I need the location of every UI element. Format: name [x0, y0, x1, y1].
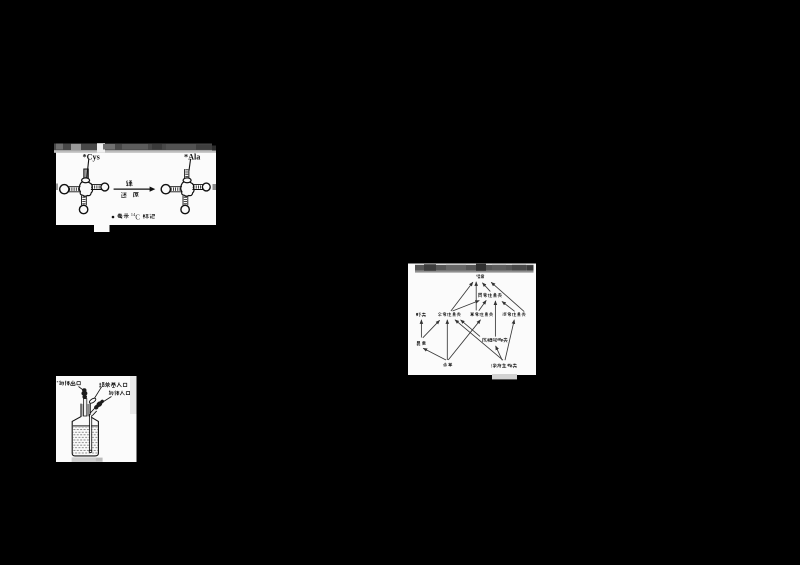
tRNA left acceptor end ellipse: [82, 178, 90, 183]
node 杂食性鱼类: [438, 312, 461, 316]
arrow 水草→草食性鱼类: [448, 320, 480, 360]
arrow 昆虫→虾类: [420, 320, 422, 338]
footnote 标记: [143, 214, 155, 219]
svg-text:*Cys: *Cys: [83, 153, 100, 162]
figure 1 censored caption strip: [54, 143, 216, 153]
gas outlet plug: [81, 388, 87, 399]
label 气体出口: [57, 381, 80, 386]
tRNA right left stem: [170, 187, 182, 192]
arrow 杂食性鱼类→猛禽: [451, 282, 473, 311]
reaction arrow: [114, 187, 156, 192]
label *Ala: [184, 153, 200, 162]
tRNA left left loop: [60, 185, 69, 194]
node 底栖动物类: [482, 338, 507, 342]
arrow 底栖动物类→肉食性鱼类: [494, 301, 496, 337]
label reduction: [121, 192, 138, 197]
medium inlet port: [88, 397, 96, 404]
tRNA right amino-acid line: [189, 159, 191, 171]
tRNA right acceptor end ellipse: [183, 178, 191, 183]
arrow 肉食性鱼类→猛禽: [482, 283, 490, 292]
gas inlet tube through shoulder: [90, 409, 97, 416]
arrow 滤食性鱼类→肉食性鱼类: [502, 301, 515, 311]
tRNA left anticodon stem: [82, 196, 87, 206]
node 滤食性鱼类: [503, 312, 526, 316]
neck shading: [82, 404, 90, 416]
tRNA left anticodon loop: [79, 205, 87, 213]
node 昆虫: [417, 341, 426, 345]
figure 1 right edge tick: [213, 184, 217, 190]
tRNA left right loop: [101, 183, 109, 191]
figure 1 white panel: [56, 153, 216, 233]
tRNA left amino-acid line: [87, 159, 89, 179]
node 浮游生物类: [491, 364, 517, 368]
inner sparger tube: [89, 414, 92, 453]
arrow 浮游生物类→杂食性鱼类: [455, 320, 503, 360]
arrow 浮游生物类→底栖动物类: [496, 346, 503, 360]
tRNA right central body: [181, 182, 194, 196]
gas inlet plug: [93, 399, 105, 411]
tRNA right right stem: [192, 185, 203, 190]
node 水草: [443, 363, 452, 367]
label nickel: [126, 181, 132, 187]
arrow 草食性鱼类→肉食性鱼类: [479, 300, 486, 310]
leader line 培养基入口: [95, 387, 102, 398]
culture liquid: [73, 425, 98, 455]
node 虾类: [416, 313, 426, 317]
bottle body outline: [72, 404, 98, 456]
gas outlet tube: [84, 399, 87, 416]
label 培养基入口: [99, 382, 127, 387]
tRNA left central body: [79, 182, 92, 196]
footnote 表示: [117, 214, 129, 219]
footnote bullet: [112, 216, 115, 219]
tRNA left right stem: [91, 185, 102, 190]
figure 1 left edge tick: [56, 184, 58, 191]
svg-text:C: C: [135, 214, 140, 221]
arrow 底栖动物类→杂食性鱼类: [461, 320, 480, 337]
svg-text:*Ala: *Ala: [184, 153, 200, 162]
tRNA right left loop: [161, 185, 170, 194]
node 肉食性鱼类: [478, 293, 501, 297]
leader line 气体入口: [103, 397, 111, 402]
label 气体入口: [109, 391, 130, 396]
footnote 14C: [131, 212, 141, 221]
arrow 浮游生物类→滤食性鱼类: [505, 320, 514, 360]
node 草食性鱼类: [470, 312, 493, 316]
tRNA right acceptor stem: [185, 169, 189, 179]
figure 3 grey tab under bottle: [72, 457, 103, 462]
figure 2 censored caption strip: [415, 264, 534, 273]
node 猛禽: [476, 274, 484, 278]
tRNA right anticodon loop: [181, 205, 189, 213]
figure 3 white panel: [56, 376, 137, 462]
arrow 杂食性鱼类→肉食性鱼类: [453, 301, 480, 312]
tRNA right right loop: [202, 183, 210, 191]
figure 2 white panel: [408, 264, 536, 376]
leader line 气体出口: [79, 387, 84, 391]
tRNA left left stem: [69, 187, 81, 192]
arrow 草食性鱼类→猛禽: [475, 282, 477, 311]
tRNA right anticodon stem: [183, 196, 188, 206]
label *Cys: [83, 153, 100, 162]
tRNA left acceptor stem: [84, 169, 89, 179]
arrow 水草→昆虫: [423, 348, 446, 360]
arrow 滤食性鱼类→猛禽: [491, 282, 524, 311]
figure 2 bottom grey tab: [492, 374, 517, 379]
arrow 昆虫→杂食性鱼类: [423, 320, 440, 338]
arrow 水草→杂食性鱼类: [446, 320, 448, 360]
